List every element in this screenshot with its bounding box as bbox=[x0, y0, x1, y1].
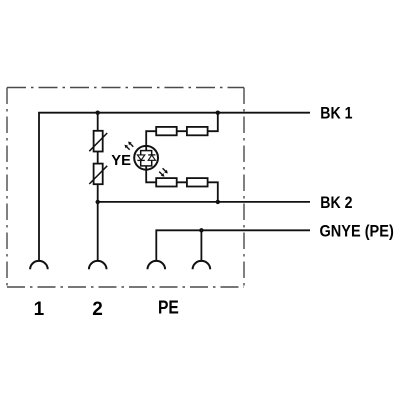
wire varistor branch / pin 2 riser bbox=[97, 113, 99, 261]
wire PE riser 2 bbox=[200, 230, 202, 260]
wire pin 1 riser + BK 1 line bbox=[39, 113, 310, 261]
enclosure dash-dot border top bbox=[7, 87, 244, 89]
wire BK 2 line bbox=[98, 201, 310, 203]
svg-text:YE: YE bbox=[111, 153, 131, 169]
LED U1 inner rectangle bbox=[141, 151, 152, 166]
enclosure dash-dot border right bbox=[243, 88, 245, 288]
LED U1 circle bbox=[134, 146, 158, 170]
resistor R3 bbox=[156, 178, 177, 186]
resistor R1 bbox=[156, 127, 177, 135]
svg-text:2: 2 bbox=[92, 299, 103, 320]
LED emission arrows lower-right bbox=[159, 168, 168, 177]
varistor RV1 bbox=[89, 131, 107, 152]
svg-text:PE: PE bbox=[158, 298, 179, 318]
varistor RV2 bbox=[89, 164, 107, 185]
junction dot BK2/resistor chain bbox=[216, 200, 220, 204]
svg-text:BK 2: BK 2 bbox=[320, 194, 352, 212]
svg-text:BK 1: BK 1 bbox=[320, 105, 353, 123]
wire LED top chain to BK 1 bbox=[146, 113, 218, 151]
contact pin 1 arc bbox=[30, 261, 48, 269]
svg-text:GNYE (PE): GNYE (PE) bbox=[320, 223, 394, 241]
LED U1 right diode (up) bbox=[148, 155, 155, 160]
LED emission arrows upper-left bbox=[125, 142, 134, 150]
resistor R4 bbox=[187, 178, 208, 186]
LED U1 left diode (down) bbox=[137, 155, 144, 161]
junction dot BK2/varistor bbox=[96, 200, 100, 204]
junction dot BK1/resistor chain bbox=[216, 111, 220, 115]
contact PE arc 2 bbox=[193, 261, 211, 269]
contact PE arc 1 bbox=[148, 261, 166, 269]
junction dot GNYE/PE riser 2 bbox=[199, 228, 203, 232]
wire GNYE (PE) line + PE riser 1 bbox=[156, 230, 310, 260]
svg-text:1: 1 bbox=[34, 299, 45, 320]
enclosure dash-dot border left bbox=[6, 88, 8, 288]
contact pin 2 arc bbox=[89, 261, 107, 269]
junction dot BK1/varistor bbox=[96, 111, 100, 115]
resistor R2 bbox=[187, 127, 208, 135]
enclosure dash-dot border bottom bbox=[7, 286, 244, 288]
wire LED bottom chain to BK 2 bbox=[146, 166, 218, 202]
